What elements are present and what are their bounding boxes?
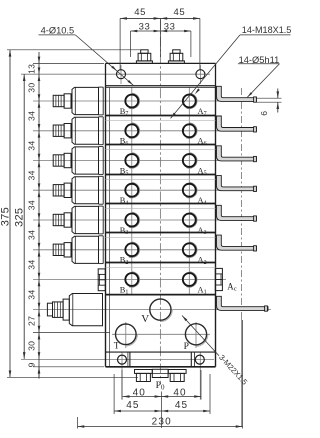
port row centerlines [33, 101, 257, 280]
foot pad right [191, 352, 194, 367]
label P0 [156, 380, 165, 392]
extension line 27 tick [33, 332, 110, 334]
block right edge [215, 86, 217, 367]
bottom of section stack thick line [106, 294, 216, 296]
chain dimension line [38, 52, 40, 379]
label B5 [120, 166, 129, 176]
section stack top line [106, 86, 216, 88]
svg-text:9: 9 [27, 362, 37, 367]
port A5 [183, 153, 197, 168]
chain dimension labels [27, 64, 37, 368]
dimension 375 [0, 50, 11, 378]
extension lines bottom 230 [78, 320, 243, 429]
label B6 [120, 137, 129, 147]
svg-text:30: 30 [27, 83, 37, 93]
dimension 45 45 top [120, 7, 200, 20]
label A3 [198, 226, 207, 236]
port A2 [183, 242, 197, 257]
leader 4-O10.5 [75, 35, 133, 85]
svg-text:34: 34 [27, 260, 37, 270]
svg-text:45: 45 [134, 7, 146, 18]
extension line stud top [7, 49, 141, 51]
port P [185, 324, 208, 347]
chain arrows [38, 57, 41, 379]
central plug P0 [152, 369, 168, 377]
check valve section 3 [53, 147, 103, 175]
svg-text:T: T [114, 342, 120, 352]
svg-text:13: 13 [27, 64, 37, 74]
leader 14-O5h11 [247, 64, 279, 98]
svg-text:4-Ø10.5: 4-Ø10.5 [41, 26, 75, 36]
dimension 40 40 bottom [123, 388, 201, 399]
cover mounting hole left [117, 70, 126, 79]
svg-text:34: 34 [27, 111, 37, 121]
extension lines dim 6 [257, 98, 282, 102]
label B3 [120, 226, 129, 236]
port T [116, 324, 138, 346]
svg-text:33: 33 [139, 22, 151, 33]
dimension 45 45 bottom [114, 400, 210, 412]
label A2 [198, 256, 207, 266]
foot hole right [195, 355, 204, 364]
svg-text:14-Ø5h11: 14-Ø5h11 [239, 55, 280, 65]
svg-text:230: 230 [152, 417, 172, 428]
main relief valve [47, 294, 102, 326]
foot hole centerline right [199, 352, 201, 400]
check valve section 4 [53, 176, 103, 204]
port A1 [183, 272, 197, 287]
T port vertical centerline [125, 322, 127, 348]
port B4 [125, 183, 139, 198]
svg-text:45: 45 [174, 7, 186, 18]
port column centerline B [131, 87, 133, 294]
foot pad left [128, 352, 130, 367]
svg-text:45: 45 [126, 400, 139, 411]
svg-text:34: 34 [27, 200, 37, 210]
callout 3-M22X1.5 [217, 353, 249, 387]
blind flange left of section 7 [98, 269, 105, 291]
svg-text:325: 325 [13, 208, 25, 227]
svg-text:V: V [141, 313, 149, 325]
extension line foot bottom [33, 366, 104, 368]
svg-text:40: 40 [133, 388, 146, 399]
outlet pipe section 3 [217, 146, 257, 162]
svg-text:375: 375 [0, 207, 11, 226]
port A3 [183, 212, 197, 227]
label A5 [198, 166, 207, 176]
label B7 [120, 107, 129, 117]
svg-text:14-M18X1.5: 14-M18X1.5 [242, 25, 292, 35]
outlet pipe section 2 [217, 116, 257, 132]
outlet pipe section 1 [217, 86, 257, 102]
outlet pipe section 4 [217, 176, 257, 192]
vertical centerline of assembly [159, 20, 161, 385]
inlet pipe bottom [217, 296, 269, 311]
cover mounting hole right [196, 70, 205, 79]
dimension 33 33 top [131, 22, 191, 33]
label A4 [198, 196, 207, 206]
svg-text:34: 34 [27, 170, 37, 180]
extension line 375 bottom [7, 376, 138, 378]
svg-text:34: 34 [27, 230, 37, 240]
port A4 [183, 183, 197, 198]
V row centerline [33, 309, 271, 311]
block left inner line [108, 87, 110, 367]
port B6 [125, 123, 139, 138]
dimension 325 [13, 74, 25, 359]
dimension 6 [259, 89, 279, 116]
outlet pipe section 5 [217, 205, 257, 221]
carry-over cover Ac [215, 268, 222, 290]
leader 3-M22X1.5 [182, 316, 219, 356]
label A1 [198, 285, 207, 295]
foot hole left [118, 355, 127, 364]
port B7 [125, 93, 139, 108]
svg-text:6: 6 [259, 111, 269, 116]
label B4 [120, 196, 129, 206]
port B1 [125, 272, 139, 287]
top cover plate outline [106, 63, 216, 85]
svg-text:33: 33 [164, 22, 176, 33]
check valve section 6 [53, 236, 103, 264]
extension lines top 33 [131, 18, 191, 57]
label A6 [198, 137, 207, 147]
check valve section 2 [53, 117, 103, 145]
label B1 [120, 285, 129, 295]
label B2 [120, 256, 129, 266]
outlet pipe section 6 [217, 235, 257, 251]
foot hole centerline left [121, 352, 123, 400]
svg-text:34: 34 [27, 141, 37, 151]
callout 14-M18X1.5 [240, 25, 291, 35]
extension lines bottom 40 [122, 370, 201, 400]
port A6 [183, 123, 197, 138]
port V [150, 299, 173, 322]
dimension 230 bottom [78, 417, 243, 428]
extension lines top 45 [120, 18, 200, 70]
P0 fitting left [135, 370, 153, 382]
label T [114, 342, 120, 352]
block left edge [105, 86, 107, 367]
stud with nut right [168, 50, 184, 64]
svg-text:30: 30 [27, 341, 37, 351]
callout 4-O10.5 [39, 26, 76, 36]
foot plate [106, 352, 216, 367]
port column centerline A [188, 87, 190, 294]
label V [141, 313, 149, 325]
port B2 [125, 242, 139, 257]
svg-text:P: P [184, 342, 189, 352]
callout 14-O5h11 [238, 55, 280, 65]
foot hole row centerline [21, 359, 214, 361]
stud with nut left [136, 50, 152, 64]
extension line cover top [33, 62, 104, 64]
leader 14-M18X1.5 [171, 35, 241, 119]
svg-text:27: 27 [27, 316, 37, 326]
svg-text:40: 40 [173, 388, 186, 399]
label A7 [198, 107, 207, 117]
label P [184, 342, 189, 352]
label Ac [227, 281, 236, 292]
port B3 [125, 212, 139, 227]
svg-text:34: 34 [27, 290, 37, 300]
svg-text:45: 45 [175, 400, 188, 411]
cover hole centerline left [120, 65, 122, 84]
T P row centerline [112, 333, 210, 335]
P0 fitting right [168, 370, 186, 382]
check valve section 1 [53, 87, 103, 115]
P port vertical centerline [195, 322, 197, 348]
pin end dashed centerline [241, 88, 243, 427]
port A7 [183, 93, 197, 108]
cover hole row centerline [21, 73, 210, 75]
port B5 [125, 153, 139, 168]
section joint lines [106, 116, 216, 268]
check valve section 5 [53, 206, 103, 234]
extension lines bottom 45 [114, 374, 210, 428]
cover hole centerline right [199, 65, 201, 84]
